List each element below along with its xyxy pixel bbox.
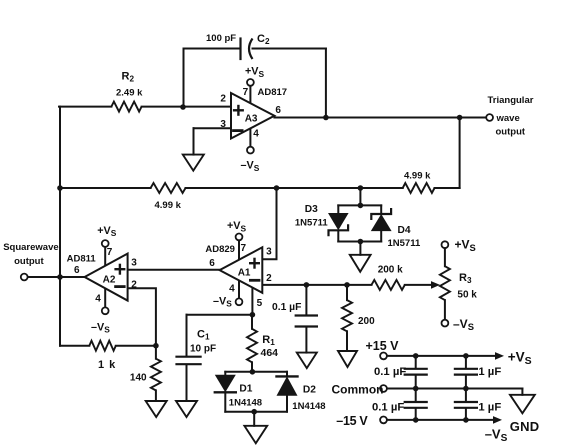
svg-text:140: 140 <box>130 373 147 384</box>
svg-text:4: 4 <box>229 284 235 295</box>
svg-text:D4: D4 <box>398 225 411 236</box>
svg-text:3: 3 <box>220 119 226 130</box>
svg-text:5: 5 <box>257 298 263 309</box>
svg-text:7: 7 <box>243 87 249 98</box>
svg-text:Squarewave: Squarewave <box>3 242 58 253</box>
svg-text:A2: A2 <box>103 274 116 285</box>
svg-text:Common: Common <box>332 383 384 397</box>
svg-text:output: output <box>496 126 526 137</box>
svg-text:3: 3 <box>266 247 272 258</box>
svg-text:7: 7 <box>241 243 247 254</box>
svg-text:wave: wave <box>496 113 520 124</box>
svg-text:1 k: 1 k <box>98 359 116 371</box>
svg-text:+15 V: +15 V <box>366 339 400 353</box>
svg-text:6: 6 <box>209 258 215 269</box>
svg-text:1N5711: 1N5711 <box>295 217 328 228</box>
svg-text:4.99 k: 4.99 k <box>155 200 182 211</box>
svg-text:0.1 µF: 0.1 µF <box>272 302 301 313</box>
svg-text:AD811: AD811 <box>67 253 97 264</box>
svg-text:1N4148: 1N4148 <box>229 397 262 408</box>
svg-text:2: 2 <box>131 280 137 291</box>
svg-text:output: output <box>14 256 44 267</box>
svg-text:2: 2 <box>266 273 272 284</box>
svg-text:200: 200 <box>358 316 375 327</box>
svg-text:3: 3 <box>131 257 137 268</box>
svg-text:GND: GND <box>510 419 540 434</box>
svg-text:6: 6 <box>74 265 80 276</box>
svg-text:2.49 k: 2.49 k <box>116 88 143 99</box>
svg-text:4: 4 <box>253 128 259 139</box>
svg-text:D3: D3 <box>305 204 318 215</box>
svg-text:7: 7 <box>107 247 113 258</box>
svg-text:A1: A1 <box>238 267 251 278</box>
svg-text:D1: D1 <box>239 383 252 394</box>
svg-text:1N4148: 1N4148 <box>292 401 325 412</box>
svg-text:1 µF: 1 µF <box>478 366 501 378</box>
svg-text:Triangular: Triangular <box>488 95 534 106</box>
svg-text:464: 464 <box>261 347 279 359</box>
svg-text:50 k: 50 k <box>457 290 477 301</box>
svg-text:0.1 µF: 0.1 µF <box>374 366 406 378</box>
svg-text:2: 2 <box>220 94 226 105</box>
svg-text:AD817: AD817 <box>258 87 288 98</box>
svg-text:4: 4 <box>95 293 101 304</box>
svg-text:1 µF: 1 µF <box>478 402 501 414</box>
svg-text:0.1 µF: 0.1 µF <box>372 402 404 414</box>
svg-text:200 k: 200 k <box>378 264 403 275</box>
svg-text:D2: D2 <box>303 385 316 396</box>
svg-text:–15 V: –15 V <box>336 414 368 428</box>
svg-text:1N5711: 1N5711 <box>388 238 421 249</box>
svg-text:6: 6 <box>275 105 281 116</box>
svg-text:10 pF: 10 pF <box>190 343 216 354</box>
svg-text:4.99 k: 4.99 k <box>404 170 431 181</box>
svg-text:A3: A3 <box>245 114 258 125</box>
svg-text:100 pF: 100 pF <box>206 33 236 44</box>
svg-text:AD829: AD829 <box>205 244 235 255</box>
